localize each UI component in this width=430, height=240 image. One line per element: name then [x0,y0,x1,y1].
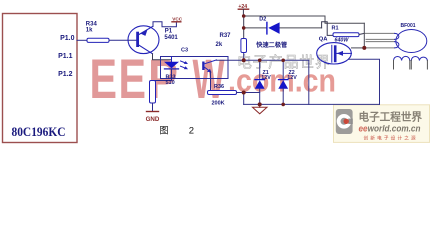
svg-text:电子产品世界: 电子产品世界 [237,54,331,71]
coil leads [366,39,395,41]
zener Z2 [282,60,284,79]
wire emitter to VCC [153,22,176,27]
svg-text:D2: D2 [259,16,266,22]
caption [160,126,195,137]
svg-text:E: E [90,47,118,110]
vertical x308.8 [308,60,310,104]
drain line [352,47,365,49]
junction +24/top-feed [242,14,246,18]
svg-text:P1: P1 [165,28,173,34]
wire emitter down to R36 [210,72,212,91]
IC box 80C196KC [3,14,78,143]
svg-text:+24: +24 [238,4,247,10]
junction Z2 top [281,59,285,63]
junction drain/coil node [362,46,366,50]
resistor R37 [241,39,247,53]
svg-text:R34: R34 [86,21,98,27]
svg-text:创新电子设计之源: 创新电子设计之源 [364,135,418,142]
wire P1.0 to R34 [77,39,87,41]
svg-text:12V: 12V [261,75,271,81]
svg-text:P1.1: P1.1 [58,53,73,60]
svg-text:1k: 1k [86,28,93,34]
resistor R1 [333,33,359,37]
LED [171,57,173,62]
fan circle BF001 [396,30,427,53]
R1 right to rail/coil [359,33,364,34]
resistor R36 [208,91,237,95]
wire R34 to Q base [109,39,136,41]
D2 line [244,27,322,29]
junction Z2 bottom [281,103,285,107]
svg-text:5401: 5401 [164,35,178,41]
wire R33 to GND [152,103,154,112]
watermark EEPW letters [90,47,225,110]
optocoupler C3 box [161,57,229,79]
svg-text:200K: 200K [212,101,225,107]
svg-text:图: 图 [160,126,169,136]
eeworld logo box [334,105,430,143]
transistor P1 5401 [128,26,159,54]
resistor R34 [87,38,109,42]
svg-text:VCC: VCC [172,16,183,21]
m coils [394,56,410,60]
GND symbol [147,111,159,113]
wire R33 top [153,80,172,82]
rail x364.3 [363,23,365,48]
svg-text:80C196KC: 80C196KC [12,125,66,139]
logo C mark [336,109,353,134]
diode D2 [266,22,268,34]
top feed line [244,16,365,23]
svg-text:R36: R36 [214,84,224,90]
svg-text:P1.0: P1.0 [60,35,75,42]
junction R36 output [242,91,246,95]
ground rail [244,103,380,105]
svg-text:640W: 640W [335,38,350,44]
svg-text:R1: R1 [332,26,339,32]
VCC [172,21,181,23]
coil arcs [395,33,399,48]
photon arrows [181,61,187,63]
svg-text:2: 2 [189,126,194,137]
svg-text:E: E [119,47,147,110]
svg-text:12V: 12V [287,75,297,81]
svg-text:C3: C3 [181,47,188,53]
junction +24/D2 line [242,26,246,30]
svg-text:R37: R37 [220,33,232,39]
svg-text:快速二极管: 快速二极管 [256,41,287,49]
photo transistor [202,62,204,71]
R37 stems [243,52,245,60]
ground triangle [259,104,261,107]
junction Z1 top [258,59,262,63]
node line y60.3 [217,59,309,61]
svg-text:2k: 2k [216,42,223,48]
svg-text:GND: GND [146,116,160,123]
wire collector to opto [153,54,172,62]
resistor R33 [150,81,156,104]
svg-text:BF001: BF001 [401,23,416,29]
svg-text:P1.2: P1.2 [58,71,73,78]
junction R37/node line [242,58,246,62]
svg-text:QA: QA [319,36,329,42]
svg-text:电子工程世界: 电子工程世界 [359,111,423,124]
svg-text:510: 510 [166,80,175,86]
gate jog [322,22,333,36]
source line [349,59,380,104]
svg-text:eeworld.com.cn: eeworld.com.cn [359,124,421,135]
wire R36 right [237,93,260,105]
zener Z1 [259,60,261,79]
mosfet QA [317,43,352,64]
junction Z1 bottom / ground [258,102,262,106]
+24 symbol [238,8,248,10]
